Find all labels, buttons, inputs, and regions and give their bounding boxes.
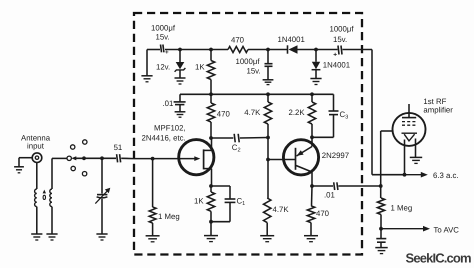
svg-text:470: 470	[231, 36, 245, 45]
svg-text:.01: .01	[324, 190, 335, 199]
svg-text:1 Meg: 1 Meg	[391, 203, 413, 212]
svg-text:MPF102,: MPF102,	[154, 123, 186, 132]
svg-text:2.2K: 2.2K	[289, 108, 306, 117]
svg-text:1N4001: 1N4001	[278, 35, 305, 44]
svg-text:1K: 1K	[195, 63, 205, 72]
svg-text:15v.: 15v.	[333, 35, 347, 44]
svg-text:+: +	[333, 52, 337, 59]
svg-text:.01: .01	[163, 99, 174, 108]
svg-text:To AVC: To AVC	[434, 225, 460, 234]
svg-text:4.7K: 4.7K	[273, 205, 290, 214]
svg-text:2N4416, etc.: 2N4416, etc.	[142, 133, 186, 142]
svg-text:2N2997: 2N2997	[322, 151, 349, 160]
svg-text:1000μf: 1000μf	[236, 57, 261, 66]
svg-text:1N4001: 1N4001	[323, 61, 350, 70]
svg-text:1 Meg: 1 Meg	[158, 212, 180, 221]
svg-text:470: 470	[217, 109, 231, 118]
svg-text:12v.: 12v.	[156, 62, 170, 71]
svg-text:SeekIC.com: SeekIC.com	[406, 250, 471, 265]
svg-text:1K: 1K	[194, 197, 204, 206]
svg-text:1000μf: 1000μf	[151, 24, 176, 33]
svg-text:6.3 a.c.: 6.3 a.c.	[433, 171, 459, 180]
svg-text:51: 51	[114, 143, 123, 152]
svg-text:470: 470	[316, 209, 330, 218]
svg-text:amplifier: amplifier	[423, 106, 453, 115]
svg-text:1000μf: 1000μf	[330, 25, 355, 34]
svg-text:15v.: 15v.	[247, 67, 261, 76]
svg-text:+: +	[165, 49, 169, 56]
svg-text:4.7K: 4.7K	[244, 108, 261, 117]
svg-text:input: input	[27, 142, 45, 151]
svg-text:15v.: 15v.	[156, 33, 170, 42]
